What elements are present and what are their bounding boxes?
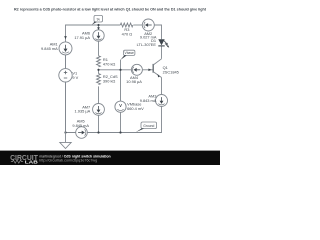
resistor R3 bbox=[120, 23, 133, 36]
svg-text:470 kΩ: 470 kΩ bbox=[103, 61, 116, 66]
ammeter AM2 bbox=[140, 19, 157, 39]
LED D1 bbox=[137, 38, 170, 48]
voltage source V1 bbox=[59, 55, 79, 133]
wire Q1 emitter to AM3 bbox=[161, 78, 163, 95]
svg-text:470 Ω: 470 Ω bbox=[122, 32, 133, 37]
svg-text:10.98 µA: 10.98 µA bbox=[126, 79, 142, 84]
wire AM7 to bottom rail bbox=[98, 115, 100, 132]
footer bar bbox=[0, 151, 220, 165]
svg-text:9 V: 9 V bbox=[72, 75, 78, 80]
svg-text:LAB: LAB bbox=[25, 159, 39, 164]
ammeter AM1 bbox=[41, 36, 72, 55]
net tag Vbase bbox=[121, 50, 135, 60]
wire R2 to AM7 bbox=[98, 86, 100, 103]
resistor R1 bbox=[97, 56, 116, 67]
wire Vbase column bbox=[120, 60, 122, 102]
svg-text:V: V bbox=[119, 103, 122, 108]
wire middle column bbox=[98, 25, 100, 30]
node junction rail AM7 bbox=[97, 131, 99, 133]
footer logo resistor zigzag bbox=[11, 160, 23, 163]
wire LED to Q1 collector bbox=[161, 46, 163, 59]
ammeter AM6 bbox=[74, 27, 104, 41]
svg-text:2SC1845: 2SC1845 bbox=[163, 70, 179, 75]
resistor R2_CdS bbox=[97, 74, 118, 85]
wire top rail bbox=[66, 25, 121, 133]
svg-text:17.91 µA: 17.91 µA bbox=[74, 35, 90, 40]
ammeter AM3 bbox=[140, 94, 168, 107]
net tag 9v bbox=[92, 15, 103, 24]
node junction rail VMbase bbox=[119, 131, 121, 133]
svg-text:9.845 mA: 9.845 mA bbox=[41, 46, 58, 51]
node junction rail left bbox=[64, 131, 66, 133]
node junction top middle bbox=[97, 24, 99, 26]
wire VMbase to bottom rail bbox=[120, 112, 122, 132]
svg-text:http://circuitlab.com/c6pq3e76: http://circuitlab.com/c6pq3e76c7wg bbox=[39, 158, 97, 162]
svg-text:LTL-307EE: LTL-307EE bbox=[137, 42, 157, 47]
svg-text:9.843 mA: 9.843 mA bbox=[140, 98, 157, 103]
net tag Ground bbox=[136, 122, 157, 132]
wire right column top bbox=[154, 25, 161, 39]
transistor Q1 bbox=[148, 59, 178, 78]
svg-text:390 kΩ: 390 kΩ bbox=[103, 78, 116, 83]
wire base bbox=[99, 69, 132, 71]
ammeter AM7 bbox=[75, 104, 105, 116]
node junction Vbase bbox=[119, 69, 121, 71]
wire AM4 to Q1 base bbox=[142, 69, 153, 71]
svg-text:Ground: Ground bbox=[143, 124, 154, 128]
ground bbox=[60, 133, 71, 149]
wire AM3 to bottom rail bbox=[66, 106, 162, 132]
svg-text:9v: 9v bbox=[97, 17, 101, 21]
svg-text:Vbase: Vbase bbox=[125, 51, 135, 55]
wire AM6 to R1 bbox=[98, 41, 100, 56]
node junction base left bbox=[97, 69, 99, 71]
wire top rail right bbox=[133, 24, 142, 26]
ammeter AM4 bbox=[126, 64, 142, 84]
svg-text:1.935 µA: 1.935 µA bbox=[75, 109, 91, 114]
wire R1 to base node bbox=[98, 69, 100, 74]
svg-text:9.845 mA: 9.845 mA bbox=[72, 123, 89, 128]
svg-text:660.4 mV: 660.4 mV bbox=[127, 106, 144, 111]
voltmeter VMbase bbox=[115, 101, 144, 112]
ammeter AM5 bbox=[72, 118, 89, 138]
svg-text:R2 represents a CdS photo-resi: R2 represents a CdS photo-resistor at a … bbox=[14, 6, 207, 11]
